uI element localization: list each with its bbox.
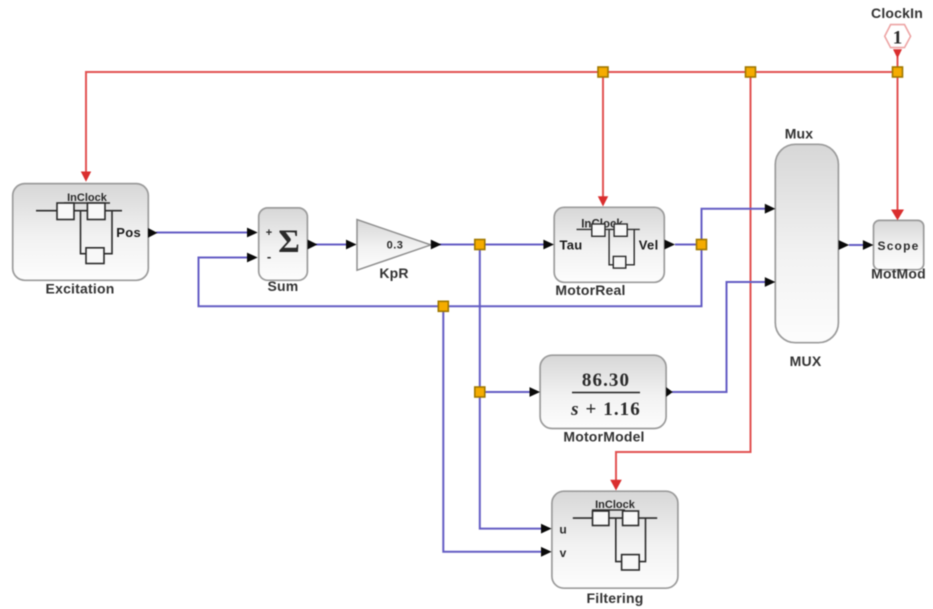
svg-text:Mux: Mux <box>785 126 814 142</box>
arrow red into Scope <box>891 210 904 221</box>
node junction at MotorModel input <box>475 387 485 397</box>
block Mux <box>775 126 838 370</box>
arrow into MotorReal Tau <box>543 240 554 250</box>
svg-text:Filtering: Filtering <box>586 590 643 606</box>
svg-text:-: - <box>267 249 271 264</box>
arrow Sum output <box>308 240 318 250</box>
node junction on clock bus below ClockIn <box>893 67 903 77</box>
arrow into Sum plus <box>247 228 258 238</box>
arrow into MotorModel <box>530 387 541 397</box>
svg-text:1: 1 <box>893 28 903 49</box>
block Sum <box>259 208 308 294</box>
svg-text:Pos: Pos <box>116 225 141 240</box>
arrow red into Filtering <box>610 480 622 491</box>
node junction on clock bus above MotorReal <box>598 67 608 77</box>
svg-text:KpR: KpR <box>379 265 408 281</box>
svg-text:Tau: Tau <box>560 238 583 253</box>
wire navy Mux out to Scope <box>849 244 866 246</box>
svg-text:InClock: InClock <box>67 192 108 204</box>
arrow MotorModel output <box>666 387 673 397</box>
node junction on Vel output wire <box>697 240 707 250</box>
svg-text:Sum: Sum <box>268 278 299 294</box>
svg-text:Vel: Vel <box>639 238 659 253</box>
svg-text:MotorReal: MotorReal <box>555 282 625 298</box>
svg-text:u: u <box>559 523 566 537</box>
svg-text:MUX: MUX <box>790 353 822 369</box>
arrow into Mux input2 <box>765 277 776 287</box>
arrow red into MotorReal <box>598 196 608 206</box>
svg-text:MotorModel: MotorModel <box>563 429 644 445</box>
arrow into Sum minus <box>247 253 258 263</box>
gain KpR <box>357 220 431 281</box>
arrow into Scope <box>863 240 874 250</box>
arrow into Filtering u <box>541 524 552 534</box>
svg-text:v: v <box>560 546 567 560</box>
block Filtering <box>552 491 678 606</box>
wire red clock bus top <box>86 57 898 486</box>
arrow gain output <box>431 240 442 250</box>
port ClockIn <box>871 5 923 59</box>
node junction on gain output wire <box>475 240 485 250</box>
svg-text:Excitation: Excitation <box>46 281 115 297</box>
svg-text:0.3: 0.3 <box>387 240 404 252</box>
wire navy junction down to MotorModel and Filtering u <box>480 245 543 529</box>
block MotorReal <box>554 207 664 298</box>
wire navy feedback junction down to Filtering v <box>443 306 543 552</box>
svg-text:Scope: Scope <box>877 239 919 253</box>
svg-text:InClock: InClock <box>595 499 636 511</box>
arrow into Mux input1 <box>765 204 776 214</box>
arrow Mux output <box>839 240 850 250</box>
block Scope <box>871 220 926 281</box>
svg-text:MotMod: MotMod <box>871 266 926 282</box>
svg-text:ClockIn: ClockIn <box>871 5 923 21</box>
svg-text:Σ: Σ <box>278 224 300 260</box>
node junction on feedback wire <box>438 301 448 311</box>
svg-text:+: + <box>266 227 272 239</box>
wire navy Pos to Sum plus <box>156 232 250 234</box>
wire navy gain to MotorReal Tau <box>438 244 546 246</box>
wire navy junction up to Mux input1 <box>702 209 769 245</box>
block MotorModel <box>540 355 666 444</box>
block Excitation <box>13 184 149 297</box>
svg-text:s + 1.16: s + 1.16 <box>570 399 641 420</box>
arrow into gain <box>346 240 357 250</box>
svg-text:86.30: 86.30 <box>582 370 630 391</box>
wire navy Vel out to junction <box>675 244 702 246</box>
wire navy feedback to Sum minus <box>199 245 702 307</box>
wire navy Sum out to gain <box>314 244 349 246</box>
arrow into Filtering v <box>541 547 552 557</box>
wire navy MotorModel out to Mux input2 <box>672 282 768 392</box>
node junction on clock bus above Filtering branch <box>746 67 756 77</box>
arrow red into Excitation <box>81 172 91 182</box>
arrow Pos output <box>148 228 158 238</box>
arrow MotorReal Vel output <box>665 240 676 250</box>
